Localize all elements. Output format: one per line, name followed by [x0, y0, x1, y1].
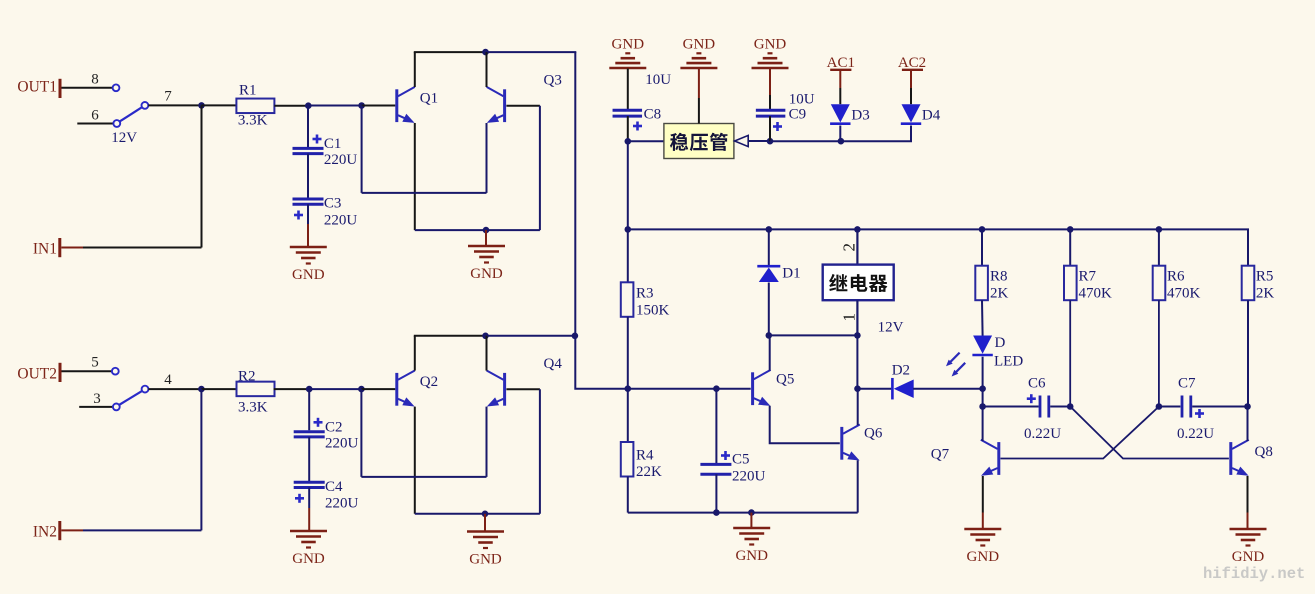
- svg-text:150K: 150K: [636, 303, 670, 319]
- wire C4 to ground: [308, 488, 310, 509]
- svg-text:12V: 12V: [878, 320, 904, 336]
- transistor Q2: [397, 371, 438, 407]
- node ground rail stage2: [482, 511, 489, 518]
- svg-text:C2: C2: [325, 420, 343, 436]
- node rail/R3: [625, 226, 632, 233]
- LED D: [972, 335, 1023, 370]
- svg-text:GND: GND: [754, 37, 787, 53]
- svg-text:R7: R7: [1079, 269, 1097, 285]
- wire Q7 emitter down: [982, 476, 984, 513]
- wire R2 to C2 node: [274, 388, 310, 390]
- port IN1: [33, 238, 60, 258]
- node Q6 collector / D2: [854, 385, 861, 392]
- wire LED to D2 node: [982, 357, 984, 389]
- svg-text:220U: 220U: [732, 469, 766, 485]
- capacitor C6 0.22U: [1024, 376, 1061, 443]
- wire pin 6 stub: [77, 123, 113, 125]
- svg-text:6: 6: [91, 108, 99, 124]
- switch SW1 pin 6 contact: [113, 120, 120, 127]
- wire Q6 emitter down: [857, 460, 859, 512]
- relay coil box (relay): [823, 229, 894, 335]
- svg-text:Q5: Q5: [776, 372, 794, 388]
- resistor R7 470K: [1064, 229, 1112, 406]
- svg-text:Q4: Q4: [544, 356, 563, 372]
- svg-text:220U: 220U: [324, 213, 358, 229]
- node Q4 collector on rail: [482, 333, 489, 340]
- switch SW1 pin 8 contact: [113, 84, 120, 91]
- wire C6 row left: [983, 406, 1039, 408]
- wire pin4 to node: [148, 388, 201, 390]
- port AC2: [898, 55, 926, 71]
- svg-text:GND: GND: [967, 549, 1000, 565]
- transistor Q3: [487, 73, 562, 123]
- svg-text:GND: GND: [683, 37, 716, 53]
- svg-text:R4: R4: [636, 448, 654, 464]
- wire Q5 emitter to Q6 base: [770, 406, 840, 444]
- svg-text:Q7: Q7: [931, 447, 950, 463]
- svg-text:10U: 10U: [645, 72, 671, 88]
- wire IN2 vertical riser: [200, 389, 202, 530]
- svg-text:D4: D4: [922, 107, 941, 123]
- svg-text:C8: C8: [644, 107, 662, 123]
- wire node to Q2 base: [361, 388, 395, 390]
- wire GND2 down to regulator box: [698, 69, 700, 99]
- ground GND Q7: [964, 529, 1001, 565]
- switch SW2 arm: [119, 391, 142, 405]
- node gnd/bottom rail: [748, 509, 755, 516]
- wire top rail Q2-Q4 collectors: [414, 335, 486, 337]
- svg-text:GND: GND: [469, 552, 502, 568]
- switch SW2 pin 4 contact: [142, 386, 149, 393]
- ground GND Q8: [1230, 529, 1267, 565]
- svg-text:3.3K: 3.3K: [238, 400, 268, 416]
- svg-text:D: D: [995, 335, 1006, 351]
- capacitor C9 10U: [756, 92, 815, 132]
- node R1/C1: [305, 102, 312, 109]
- svg-text:220U: 220U: [325, 436, 359, 452]
- svg-text:220U: 220U: [324, 152, 358, 168]
- wire GND1 to C8: [627, 69, 629, 110]
- svg-text:2: 2: [840, 243, 859, 252]
- svg-text:10U: 10U: [789, 92, 815, 108]
- callout arrow pointing at regulator box: [735, 135, 749, 146]
- wire C8 to node: [627, 116, 629, 141]
- node Q2 base / feedback: [358, 386, 365, 393]
- port IN2: [33, 521, 60, 541]
- wire bottom rail mid: [628, 512, 858, 514]
- wire Q3 collector: [486, 52, 488, 87]
- node C6/R7: [1067, 403, 1074, 410]
- wire D2 node to diode: [858, 388, 892, 390]
- wire Q7 collector: [982, 407, 984, 442]
- wire Q3 emitter down to cross wire: [486, 123, 488, 193]
- wire GND3 to C9: [769, 69, 771, 96]
- resistor R3 150K: [621, 229, 670, 388]
- svg-text:2K: 2K: [1256, 286, 1275, 302]
- wire C7 row: [1159, 406, 1181, 408]
- svg-text:IN1: IN1: [33, 241, 57, 258]
- wire cross-coupling to Q1 base node: [362, 192, 487, 194]
- node rail/R6: [1156, 226, 1163, 233]
- svg-text:OUT2: OUT2: [17, 366, 57, 383]
- wire relay pin1 row: [769, 334, 858, 336]
- wire C2 node to Q2 base node: [309, 388, 361, 390]
- capacitor C3: [293, 154, 358, 229]
- svg-text:5: 5: [91, 355, 99, 371]
- svg-text:3.3K: 3.3K: [238, 113, 268, 129]
- resistor R8 2K: [975, 229, 1008, 335]
- wire C6 to R7 node: [1050, 406, 1070, 408]
- switch SW2 pin 5 contact: [112, 368, 119, 375]
- diode D2: [892, 363, 914, 400]
- wire node to regulator label: [628, 140, 664, 142]
- svg-text:GND: GND: [292, 267, 325, 283]
- wire Q3 base drop: [539, 106, 541, 230]
- node C5 tap: [713, 385, 720, 392]
- node rail/R7: [1067, 226, 1074, 233]
- svg-text:C5: C5: [732, 452, 750, 468]
- node rail/R8: [979, 226, 986, 233]
- svg-text:AC2: AC2: [898, 55, 926, 71]
- wire Q8 collector: [1247, 407, 1249, 442]
- node C9: [767, 138, 774, 145]
- node C5/bottom rail: [713, 509, 720, 516]
- resistor R6 470K: [1153, 229, 1201, 406]
- ground GND C4: [290, 531, 327, 567]
- ground GND stage1: [468, 246, 505, 282]
- wire C3 to ground: [307, 204, 309, 224]
- wire Q4 base drop: [539, 389, 541, 514]
- port AC1: [827, 55, 855, 71]
- svg-text:C1: C1: [324, 136, 342, 152]
- label box: voltage regulator (stabilizer): [664, 124, 734, 159]
- node C7/R6: [1156, 403, 1163, 410]
- wire D4 down and left to D3 node: [841, 126, 911, 142]
- wire cross-coupling to Q2 base node: [361, 476, 486, 478]
- svg-text:IN2: IN2: [33, 524, 57, 541]
- wire node to Q1 base: [362, 105, 396, 107]
- capacitor C8 10U: [613, 72, 672, 131]
- resistor R4 22K: [621, 389, 662, 513]
- svg-text:3: 3: [93, 391, 101, 407]
- svg-text:8: 8: [91, 72, 99, 88]
- svg-text:R6: R6: [1167, 269, 1185, 285]
- wire main vertical bus C8 node to 12V rail: [627, 141, 629, 229]
- diode D1: [757, 229, 800, 335]
- node D3: [838, 138, 845, 145]
- wire C9 to node: [769, 116, 771, 141]
- wire AC1 to D3: [839, 71, 841, 88]
- wire IN1 vertical riser: [201, 105, 203, 247]
- svg-text:GND: GND: [470, 266, 503, 282]
- wire to ground: [484, 514, 486, 532]
- capacitor C5 220U: [700, 389, 765, 513]
- node Q7 collector / C6 row: [979, 403, 986, 410]
- transistor Q6: [842, 425, 883, 461]
- ground GND mid: [733, 528, 770, 564]
- wire OUT2 to pin 5 contact: [62, 370, 113, 372]
- diode D3: [830, 104, 870, 124]
- wire AC2 to D4: [910, 71, 912, 88]
- svg-text:OUT1: OUT1: [17, 79, 57, 96]
- node rail/relay pin2: [854, 226, 861, 233]
- port OUT1: [17, 79, 60, 99]
- wire pin 3 stub: [79, 406, 113, 408]
- transistor Q4: [487, 356, 563, 407]
- wire top rail Q1-Q3 collectors: [414, 51, 486, 53]
- wire R1 to C1 node: [274, 105, 308, 107]
- transistor Q8: [1231, 440, 1273, 476]
- svg-text:Q3: Q3: [544, 73, 562, 89]
- wire relay pin1 down to D2 node: [856, 335, 858, 388]
- transistor Q7: [981, 440, 999, 476]
- capacitor C7 0.22U: [1177, 376, 1214, 443]
- ground GND C9 top (inverted): [752, 37, 789, 69]
- wire emitter ground rail stage1: [415, 229, 540, 231]
- wire to ground: [750, 513, 752, 528]
- wire IN1 row: [61, 247, 83, 249]
- wire cross-couple C6 to Q8 base: [1070, 407, 1229, 459]
- wire emitter ground rail stage2: [415, 513, 540, 515]
- svg-text:4: 4: [164, 372, 172, 388]
- svg-text:Q1: Q1: [420, 91, 438, 107]
- wire Q1 emitter down: [414, 123, 416, 230]
- node Q3 collector on rail: [482, 49, 489, 56]
- node LED/D2: [979, 385, 986, 392]
- svg-text:Q2: Q2: [420, 374, 438, 390]
- node stage2 rail tap: [572, 333, 579, 340]
- svg-text:D2: D2: [892, 363, 910, 379]
- switch SW2 pin 3 contact: [113, 404, 120, 411]
- ground GND stage2: [467, 532, 504, 568]
- svg-text:R5: R5: [1256, 269, 1274, 285]
- wire pin7 to node: [148, 104, 201, 106]
- svg-text:0.22U: 0.22U: [1177, 426, 1214, 442]
- wire Q4 collector: [486, 336, 488, 371]
- svg-text:0.22U: 0.22U: [1024, 426, 1061, 442]
- switch SW1 arm (12V): [120, 107, 143, 121]
- svg-text:LED: LED: [994, 354, 1023, 370]
- svg-text:470K: 470K: [1079, 286, 1113, 302]
- svg-text:7: 7: [164, 89, 172, 105]
- wire cross-couple C7 to Q7 base: [1001, 407, 1159, 459]
- node C7/R5: [1244, 403, 1251, 410]
- wire IN2 row: [61, 529, 83, 531]
- svg-text:C3: C3: [324, 196, 342, 212]
- wire 12V supply rail: [628, 229, 1248, 265]
- svg-text:AC1: AC1: [827, 55, 855, 71]
- node at IN1/R1 junction: [198, 102, 205, 109]
- node Q1 base / feedback: [358, 102, 365, 109]
- wire node to R1: [202, 104, 237, 106]
- wire Q6 collector up: [857, 389, 859, 426]
- svg-text:GND: GND: [292, 551, 325, 567]
- switch SW1 pin 7 contact: [142, 102, 149, 109]
- wire Q2 collector: [414, 336, 416, 371]
- resistor R5 2K: [1242, 266, 1275, 407]
- wire Q1 collector: [414, 52, 416, 87]
- wire arrow to C9 node: [748, 140, 770, 142]
- capacitor C2: [294, 389, 359, 451]
- resistor R2: [237, 369, 275, 416]
- node R2/C2: [306, 386, 313, 393]
- svg-text:R2: R2: [238, 369, 256, 385]
- wire Q5 collector: [769, 335, 771, 370]
- svg-text:GND: GND: [735, 548, 768, 564]
- node C8 / regulator: [625, 138, 632, 145]
- svg-text:Q8: Q8: [1255, 444, 1273, 460]
- wire Q2 emitter down: [414, 407, 416, 514]
- wire Q8 emitter down: [1247, 476, 1249, 513]
- wire Q4 emitter down to cross wire: [486, 407, 488, 477]
- node ground rail stage1: [483, 227, 490, 234]
- svg-text:C9: C9: [789, 107, 807, 123]
- svg-text:220U: 220U: [325, 496, 359, 512]
- ground GND C3: [290, 247, 327, 283]
- svg-text:GND: GND: [612, 37, 645, 53]
- svg-text:C7: C7: [1178, 376, 1196, 392]
- svg-text:R3: R3: [636, 286, 654, 302]
- wire stage outputs vertical (Q3/Q4 collectors to comparator): [575, 52, 628, 389]
- svg-text:12V: 12V: [111, 130, 137, 146]
- svg-text:hifidiy.net: hifidiy.net: [1203, 565, 1305, 583]
- wire C7 to R5 node: [1192, 406, 1247, 408]
- wire D2 to Q7 collector node: [913, 388, 982, 390]
- wire D3 to node: [839, 126, 841, 142]
- transistor Q5: [753, 370, 795, 406]
- port OUT2: [17, 363, 60, 383]
- wire C1 node to Q1 base node: [308, 105, 361, 107]
- capacitor C4: [294, 437, 359, 512]
- capacitor C1: [293, 106, 358, 168]
- diode D4: [901, 104, 941, 124]
- svg-text:D1: D1: [782, 266, 800, 282]
- svg-text:470K: 470K: [1167, 286, 1201, 302]
- ground GND mid top (inverted): [680, 37, 717, 69]
- wire Q4 base to right: [506, 388, 540, 390]
- resistor R1: [236, 83, 274, 129]
- svg-text:C4: C4: [325, 479, 343, 495]
- node rail/D1: [766, 226, 773, 233]
- wire Q3 base to right: [506, 105, 540, 107]
- svg-text:Q6: Q6: [864, 426, 883, 442]
- LED light arrows: [946, 353, 965, 377]
- svg-text:D3: D3: [851, 107, 869, 123]
- svg-text:22K: 22K: [636, 464, 662, 480]
- svg-text:C6: C6: [1028, 376, 1046, 392]
- svg-text:2K: 2K: [990, 286, 1009, 302]
- wire to ground: [485, 230, 487, 246]
- node D1/relay pin1 row left: [766, 332, 773, 339]
- wire node to R2: [201, 388, 237, 390]
- node at IN2/R2 junction: [198, 386, 205, 393]
- node R3/R4/base row: [625, 385, 632, 392]
- transistor Q1: [397, 87, 438, 123]
- wire down to C6 node: [982, 389, 984, 407]
- svg-text:GND: GND: [1232, 549, 1265, 565]
- node relay pin1: [854, 332, 861, 339]
- svg-text:R1: R1: [239, 83, 257, 99]
- wire C9 node to D3 node: [770, 140, 841, 142]
- wire OUT1 to pin 8 contact: [62, 87, 113, 89]
- svg-text:R8: R8: [990, 269, 1008, 285]
- svg-text:1: 1: [840, 313, 859, 322]
- ground GND C8 top (inverted): [609, 37, 646, 69]
- wire node row to Q5 base: [628, 388, 751, 390]
